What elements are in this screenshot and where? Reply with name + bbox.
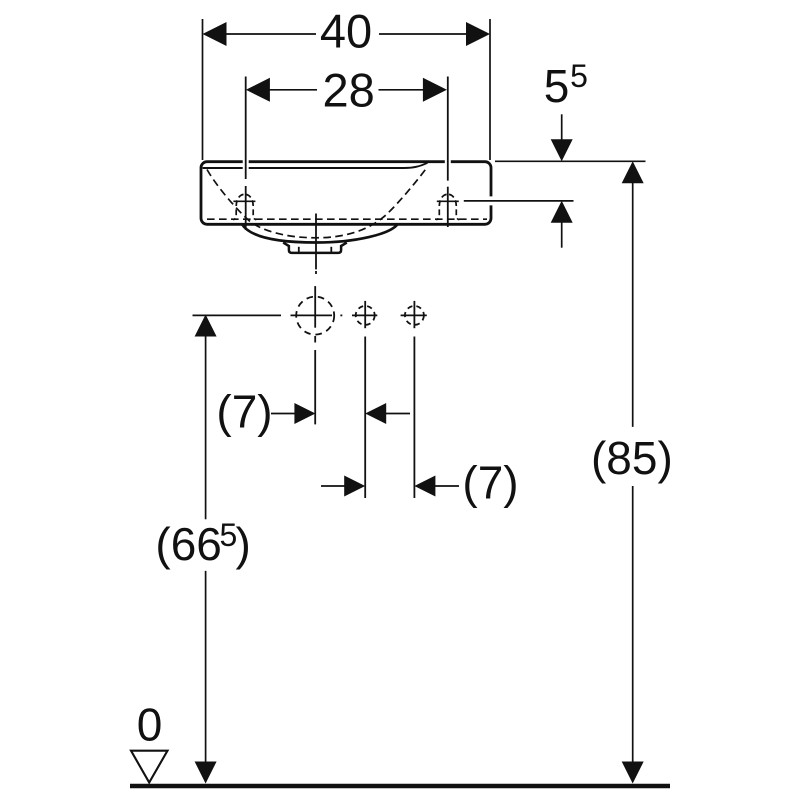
dimension 85 line <box>632 183 634 427</box>
svg-text:28: 28 <box>323 63 375 116</box>
svg-text:): ) <box>236 518 251 570</box>
basin body outline <box>201 162 491 225</box>
datum zero triangle <box>131 751 168 783</box>
svg-text:(7): (7) <box>216 386 272 438</box>
dimension 28 right arrow <box>423 78 447 102</box>
dimension 7 second: leader and right-pointing arrow <box>321 485 345 487</box>
dimension 40 right extension line <box>489 19 491 160</box>
dimension 7 first: leader and right-pointing arrow <box>271 413 296 415</box>
white casing left tap centerline <box>243 154 249 176</box>
basin bowl underside curve <box>242 224 398 242</box>
extension line 5.5 lower <box>464 200 574 202</box>
dashed right tap hole arch <box>436 194 448 219</box>
drain centerline <box>315 214 317 270</box>
svg-text:(66: (66 <box>155 518 221 570</box>
right tap hole tick <box>437 200 459 202</box>
basin rim inner line <box>203 163 428 168</box>
dimension 40 left arrow <box>203 22 227 46</box>
svg-text:0: 0 <box>137 699 163 751</box>
dimension 28 left arrow <box>246 78 270 102</box>
extension line hole height <box>193 314 282 316</box>
dimension 28 line <box>269 89 317 91</box>
svg-text:40: 40 <box>320 4 372 57</box>
main tap hole (dashed circle) <box>296 297 334 335</box>
white casing 5.5 lower extension over body edge <box>460 196 576 205</box>
dimension 85 top arrow (up) <box>622 161 644 183</box>
dimension 40 right arrow <box>466 22 490 46</box>
dimension 85 bottom arrow (down) <box>622 762 644 784</box>
small hole 2 vertical centerline <box>413 301 415 328</box>
drain inner tick left <box>298 247 300 253</box>
dimension 66.5 bottom arrow (down) <box>195 762 217 784</box>
dimension 40 line <box>226 33 316 35</box>
left tap hole tick <box>233 200 255 202</box>
right tap hole centerline <box>447 77 449 181</box>
dimension 7 second: left-pointing arrow and tail <box>414 476 435 497</box>
dimension 66.5 line <box>205 336 207 520</box>
dimension 7 first: left-pointing arrow and tail <box>365 403 386 424</box>
small hole 2 (dashed circle) <box>405 306 424 325</box>
white casing right tap centerline <box>445 154 451 176</box>
small hole 1 vertical centerline <box>364 301 366 328</box>
dashed basin back lower edge <box>207 218 487 220</box>
dashed left tap hole arch <box>233 194 245 219</box>
ground line <box>130 784 670 788</box>
main hole vertical centerline <box>314 286 316 328</box>
svg-text:(7): (7) <box>462 457 518 509</box>
dimension 66.5 top arrow (up) <box>195 315 217 337</box>
left tap hole centerline <box>245 77 247 180</box>
svg-text:5: 5 <box>544 60 570 112</box>
dimension 40 left extension line <box>202 19 204 160</box>
extension line 5.5 upper / 85 top <box>495 160 646 162</box>
small hole 1 (dashed circle) <box>356 306 375 325</box>
drain trap box <box>283 243 347 253</box>
dimension 5.5 lower arrow (up) <box>561 222 563 248</box>
svg-text:(85): (85) <box>591 432 673 484</box>
svg-text:5: 5 <box>570 58 588 94</box>
dashed interior bowl profile <box>207 168 427 238</box>
dimension 5.5 upper arrow (down) <box>561 114 563 140</box>
drain inner tick right <box>330 247 332 253</box>
holes horizontal centerline <box>291 314 333 316</box>
